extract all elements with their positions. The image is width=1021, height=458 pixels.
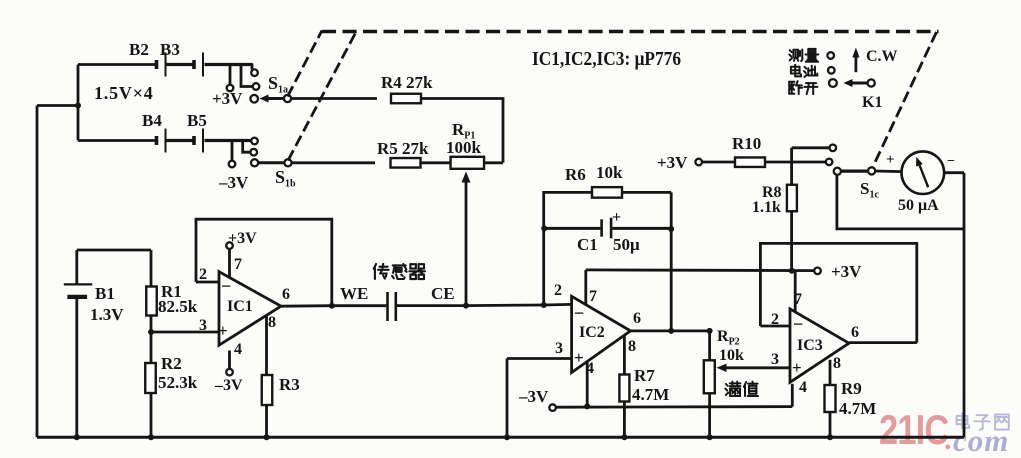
svg-text:IC2: IC2 bbox=[579, 324, 605, 341]
svg-text:R3: R3 bbox=[279, 375, 300, 394]
svg-text:–3V: –3V bbox=[518, 387, 549, 406]
svg-text:IC3: IC3 bbox=[797, 337, 823, 354]
svg-text:2: 2 bbox=[771, 311, 779, 328]
svg-text:7: 7 bbox=[234, 256, 242, 273]
svg-text:−: − bbox=[221, 276, 231, 296]
svg-text:52.3k: 52.3k bbox=[158, 373, 198, 392]
svg-text:R9: R9 bbox=[841, 379, 862, 398]
svg-text:−: − bbox=[947, 154, 955, 169]
svg-text:R10: R10 bbox=[732, 134, 761, 153]
svg-text:R4 27k: R4 27k bbox=[381, 73, 433, 92]
svg-text:B4: B4 bbox=[142, 111, 162, 130]
svg-text:3: 3 bbox=[771, 351, 779, 368]
svg-text:+: + bbox=[612, 209, 621, 226]
svg-text:R5 27k: R5 27k bbox=[377, 139, 429, 158]
svg-text:+3V: +3V bbox=[657, 153, 688, 172]
svg-text:+3V: +3V bbox=[831, 262, 862, 281]
svg-text:.: . bbox=[944, 423, 952, 456]
svg-text:4: 4 bbox=[586, 360, 594, 377]
svg-text:4: 4 bbox=[799, 379, 807, 396]
svg-text:4.7M: 4.7M bbox=[839, 399, 876, 418]
svg-text:R2: R2 bbox=[161, 354, 182, 373]
svg-text:21IC: 21IC bbox=[879, 407, 949, 454]
svg-text:50 μA: 50 μA bbox=[898, 197, 939, 214]
svg-text:+: + bbox=[574, 348, 584, 367]
svg-text:10k: 10k bbox=[719, 347, 744, 364]
svg-text:–3V: –3V bbox=[214, 377, 243, 394]
svg-text:7: 7 bbox=[589, 288, 597, 305]
svg-text:+3V: +3V bbox=[212, 89, 243, 108]
svg-text:6: 6 bbox=[282, 286, 290, 303]
svg-text:CE: CE bbox=[431, 284, 455, 303]
svg-text:8: 8 bbox=[628, 338, 636, 355]
svg-text:2: 2 bbox=[554, 282, 562, 299]
svg-text:R6: R6 bbox=[565, 165, 586, 184]
svg-text:B3: B3 bbox=[160, 40, 180, 59]
svg-text:+: + bbox=[218, 321, 228, 340]
svg-text:3: 3 bbox=[199, 317, 207, 334]
svg-text:2: 2 bbox=[199, 266, 207, 283]
svg-text:+: + bbox=[886, 152, 895, 168]
svg-text:WE: WE bbox=[340, 284, 368, 303]
svg-text:82.5k: 82.5k bbox=[158, 297, 198, 316]
svg-text:−: − bbox=[793, 314, 803, 334]
svg-text:100k: 100k bbox=[446, 138, 482, 157]
svg-text:−: − bbox=[574, 303, 584, 323]
svg-text:–3V: –3V bbox=[218, 173, 249, 192]
svg-text:8: 8 bbox=[833, 355, 841, 372]
svg-text:4: 4 bbox=[234, 341, 242, 358]
svg-text:1.3V: 1.3V bbox=[90, 305, 124, 324]
svg-text:3: 3 bbox=[555, 340, 563, 357]
svg-text:com: com bbox=[953, 423, 1009, 458]
svg-text:1.5V×4: 1.5V×4 bbox=[94, 83, 154, 103]
svg-text:4.7M: 4.7M bbox=[632, 385, 669, 404]
svg-text:8: 8 bbox=[268, 314, 276, 331]
svg-text:IC1,IC2,IC3: μP776: IC1,IC2,IC3: μP776 bbox=[532, 48, 681, 69]
svg-text:6: 6 bbox=[851, 324, 859, 341]
svg-text:R7: R7 bbox=[634, 366, 655, 385]
svg-text:B1: B1 bbox=[95, 284, 115, 303]
svg-text:10k: 10k bbox=[596, 163, 623, 182]
svg-text:IC1: IC1 bbox=[227, 298, 253, 315]
svg-text:K1: K1 bbox=[862, 94, 882, 111]
svg-text:+3V: +3V bbox=[228, 230, 257, 247]
svg-text:1.1k: 1.1k bbox=[752, 199, 781, 216]
svg-text:C.W: C.W bbox=[866, 48, 898, 65]
svg-text:6: 6 bbox=[633, 310, 641, 327]
svg-text:B2: B2 bbox=[129, 40, 149, 59]
svg-text:C1: C1 bbox=[577, 235, 598, 254]
svg-text:B5: B5 bbox=[187, 111, 207, 130]
svg-text:7: 7 bbox=[794, 291, 802, 308]
svg-text:50μ: 50μ bbox=[613, 235, 640, 254]
svg-text:+: + bbox=[792, 358, 802, 377]
